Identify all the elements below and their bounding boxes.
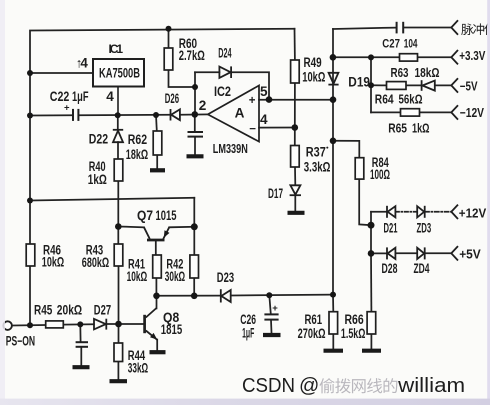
svg-text:D17: D17 bbox=[268, 186, 283, 201]
svg-text:1.5kΩ: 1.5kΩ bbox=[341, 326, 366, 341]
svg-text:2.7kΩ: 2.7kΩ bbox=[179, 48, 205, 63]
svg-text:+: + bbox=[272, 303, 278, 314]
svg-text:1μF: 1μF bbox=[242, 326, 254, 341]
svg-text:3.3kΩ: 3.3kΩ bbox=[304, 160, 331, 175]
svg-text:−5V: −5V bbox=[460, 79, 478, 93]
svg-text:18kΩ: 18kΩ bbox=[415, 66, 440, 80]
svg-text:C27: C27 bbox=[382, 37, 400, 51]
svg-text:D22: D22 bbox=[89, 131, 108, 146]
svg-text:5: 5 bbox=[260, 84, 268, 99]
svg-text:D24: D24 bbox=[218, 46, 232, 61]
svg-text:1815: 1815 bbox=[161, 322, 183, 337]
svg-text:IC2: IC2 bbox=[214, 84, 231, 99]
svg-text:ZD4: ZD4 bbox=[414, 261, 430, 276]
svg-text:R49: R49 bbox=[304, 55, 322, 70]
svg-text:ZD3: ZD3 bbox=[417, 220, 432, 235]
svg-text:R65: R65 bbox=[388, 121, 407, 135]
svg-text:+3.3V: +3.3V bbox=[459, 49, 486, 63]
svg-text:D28: D28 bbox=[382, 261, 398, 276]
svg-text:Q7: Q7 bbox=[137, 208, 153, 223]
svg-text:+5V: +5V bbox=[459, 247, 481, 261]
svg-text:↑4: ↑4 bbox=[76, 56, 89, 71]
svg-text:IC1: IC1 bbox=[109, 42, 124, 56]
svg-text:104: 104 bbox=[404, 37, 418, 51]
svg-text:10kΩ: 10kΩ bbox=[302, 70, 325, 85]
svg-text:PS−ON: PS−ON bbox=[6, 333, 35, 348]
svg-text:56kΩ: 56kΩ bbox=[399, 93, 423, 107]
svg-text:D19: D19 bbox=[348, 74, 370, 89]
svg-text:D23: D23 bbox=[217, 270, 234, 285]
svg-text:R62: R62 bbox=[128, 132, 147, 147]
svg-text:+: + bbox=[64, 103, 70, 114]
svg-text:CSDN: CSDN bbox=[242, 375, 295, 397]
svg-text:A: A bbox=[235, 106, 245, 121]
svg-text:1015: 1015 bbox=[156, 208, 177, 223]
svg-text:C26: C26 bbox=[240, 312, 256, 327]
svg-text:680kΩ: 680kΩ bbox=[82, 255, 110, 270]
svg-text:10kΩ: 10kΩ bbox=[42, 254, 65, 269]
svg-text:R64: R64 bbox=[375, 93, 394, 107]
svg-text:@: @ bbox=[299, 375, 319, 397]
svg-text:+: + bbox=[249, 95, 256, 107]
svg-text:20kΩ: 20kΩ bbox=[57, 303, 83, 318]
svg-text:LM339N: LM339N bbox=[213, 141, 248, 156]
svg-text:D27: D27 bbox=[94, 303, 111, 318]
svg-text:18kΩ: 18kΩ bbox=[126, 147, 148, 162]
svg-text:KA7500B: KA7500B bbox=[99, 66, 140, 81]
svg-text:33kΩ: 33kΩ bbox=[128, 360, 148, 375]
svg-text:R63: R63 bbox=[391, 66, 409, 80]
svg-text:1kΩ: 1kΩ bbox=[412, 122, 430, 136]
svg-text:4: 4 bbox=[106, 89, 114, 104]
svg-text:R45: R45 bbox=[34, 303, 53, 318]
svg-text:R61: R61 bbox=[305, 312, 323, 327]
svg-text:D21: D21 bbox=[384, 220, 398, 235]
svg-text:R37: R37 bbox=[306, 144, 326, 159]
svg-text:+12V: +12V bbox=[459, 206, 487, 220]
svg-text:10kΩ: 10kΩ bbox=[127, 269, 148, 284]
svg-text:william: william bbox=[397, 375, 465, 397]
svg-text:30kΩ: 30kΩ bbox=[165, 269, 185, 284]
svg-text:1kΩ: 1kΩ bbox=[88, 172, 107, 187]
svg-text:4: 4 bbox=[260, 112, 268, 127]
svg-text:2: 2 bbox=[199, 98, 207, 113]
svg-text:270kΩ: 270kΩ bbox=[298, 326, 326, 341]
svg-text:−: − bbox=[249, 123, 256, 135]
svg-text:1μF: 1μF bbox=[72, 89, 89, 104]
svg-text:−12V: −12V bbox=[460, 106, 485, 120]
svg-text:D26: D26 bbox=[165, 91, 179, 106]
svg-text:R66: R66 bbox=[345, 312, 364, 327]
svg-text:100Ω: 100Ω bbox=[370, 167, 390, 182]
